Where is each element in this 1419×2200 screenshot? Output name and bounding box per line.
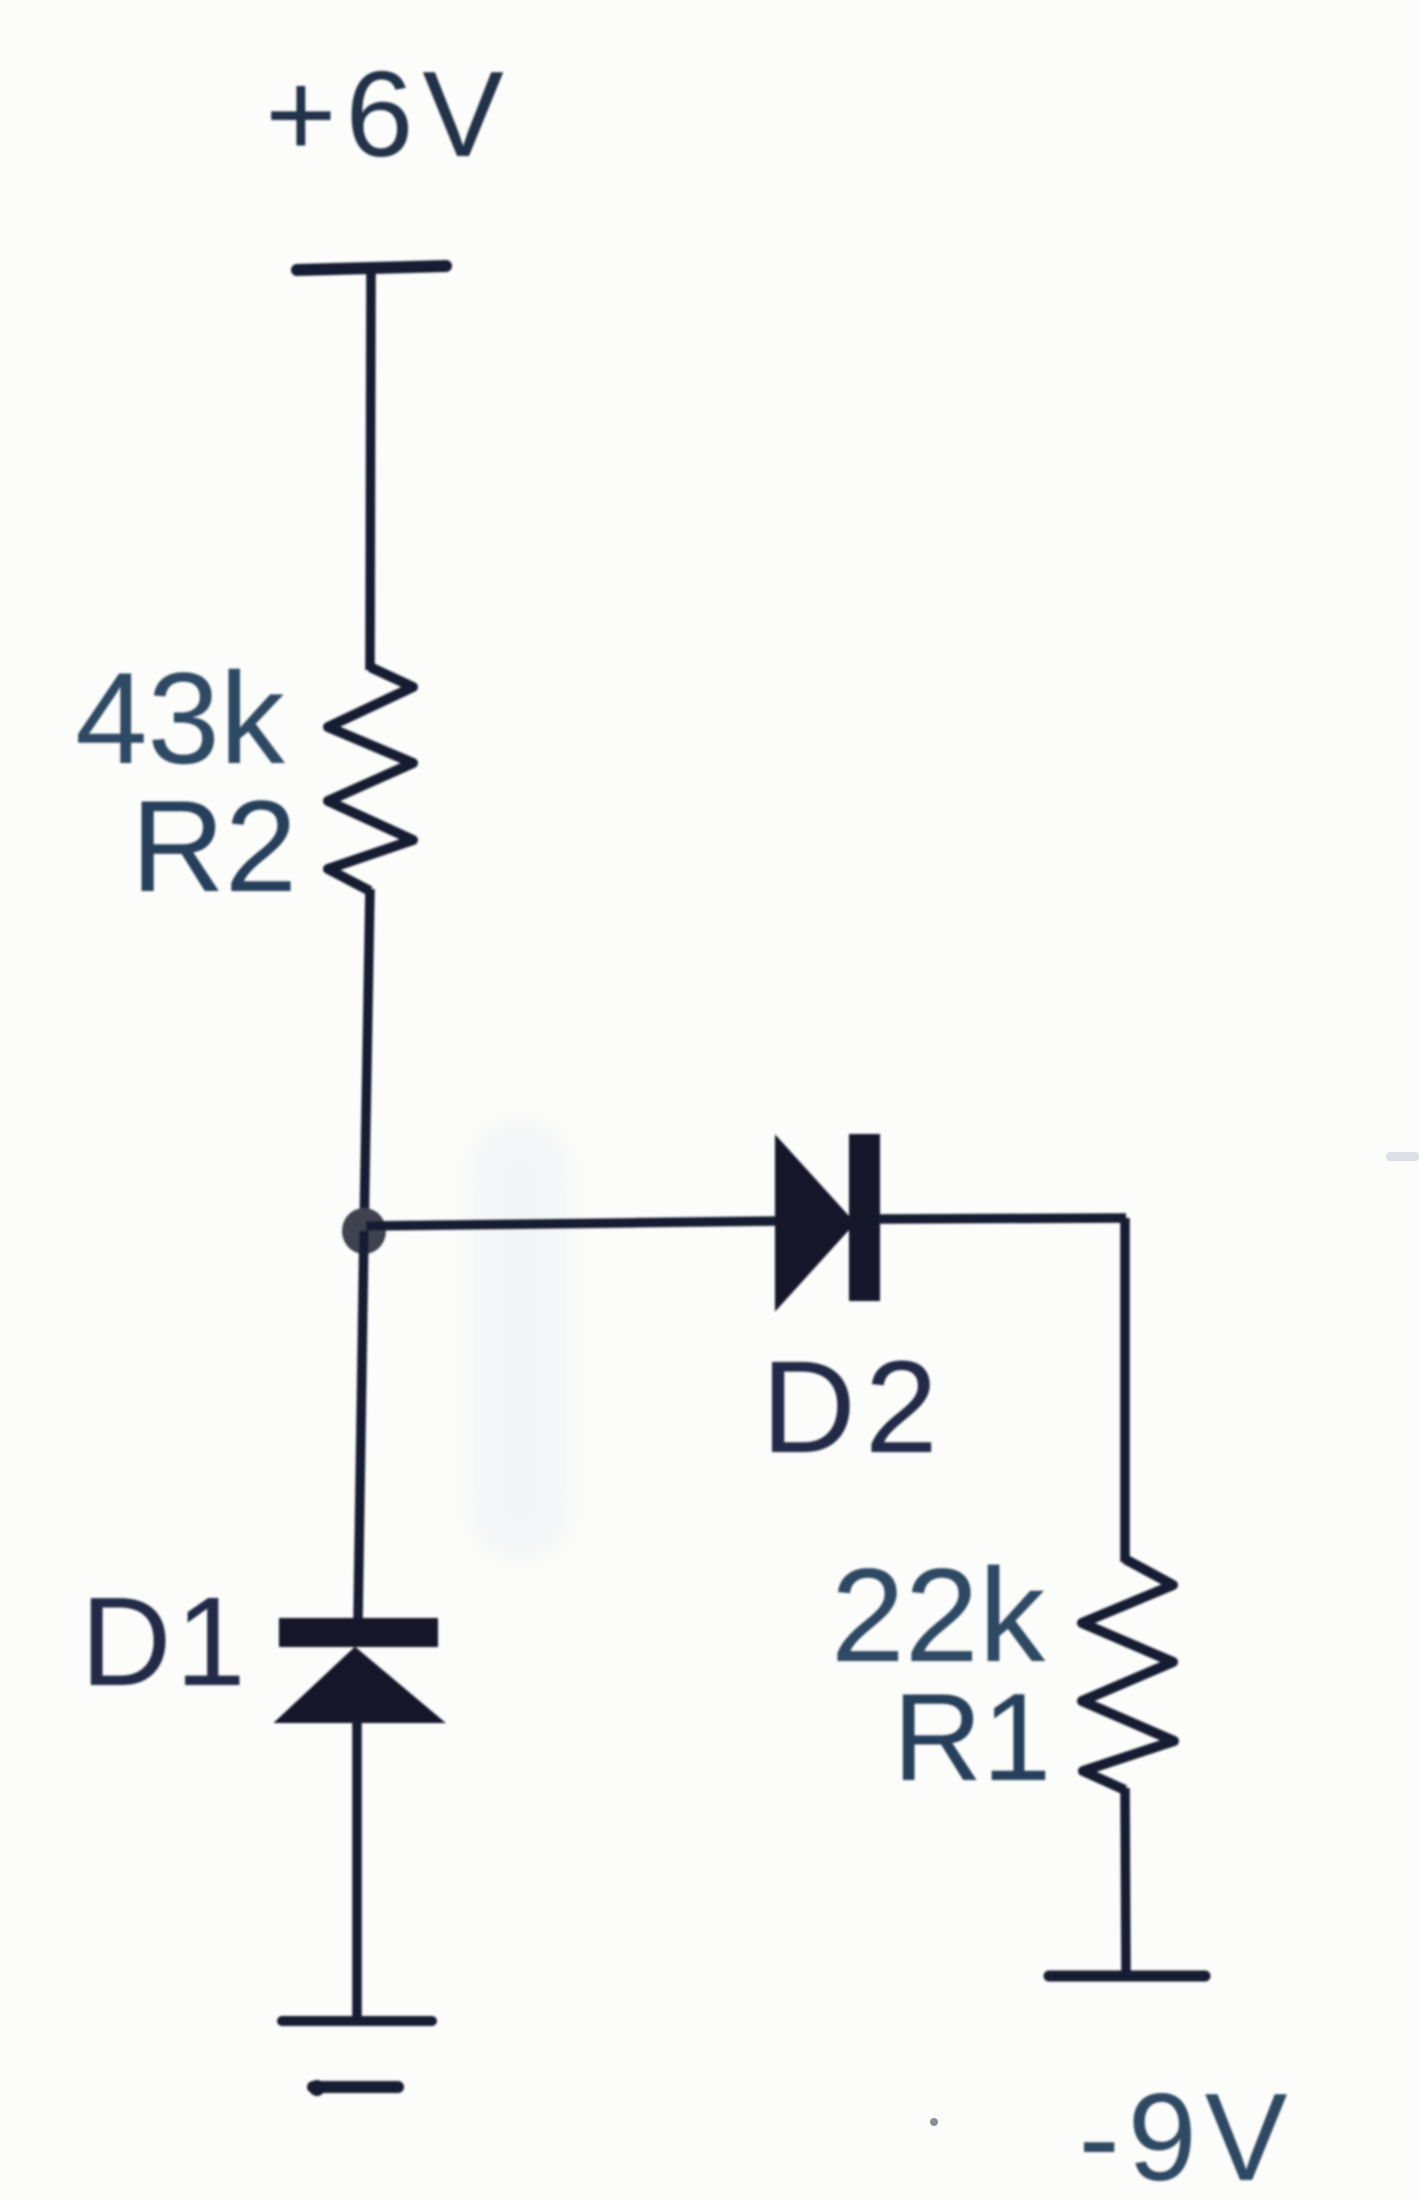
wire D2 cathode to corner <box>878 1218 1126 1219</box>
wire node to D1 <box>358 1231 364 1620</box>
svg-text:R2: R2 <box>131 773 297 919</box>
ground bar 1 <box>282 2016 432 2026</box>
diode D2 cathode bar <box>849 1134 880 1301</box>
diode D1 triangle (anode, pointing up) <box>276 1648 443 1722</box>
wire R2 bottom to node <box>364 889 370 1232</box>
wire +6V rail to R2 top <box>370 270 371 670</box>
ground bar 2 <box>309 2080 398 2096</box>
wire D1 anode to ground <box>352 1720 362 2021</box>
svg-text:R1: R1 <box>893 1669 1052 1807</box>
resistor R2 <box>328 667 413 891</box>
svg-text:D2: D2 <box>761 1333 946 1480</box>
-9V power rail bar <box>1049 1971 1205 1982</box>
svg-text:43k: 43k <box>75 645 286 791</box>
wire corner down to R1 <box>1120 1218 1130 1562</box>
wire R1 bottom to -9V rail <box>1125 1788 1126 1975</box>
+6V power rail bar <box>297 266 446 270</box>
node junction dot <box>342 1208 386 1254</box>
svg-text:+6V: +6V <box>265 46 512 182</box>
diode D1 cathode bar <box>279 1618 438 1647</box>
svg-text:22k: 22k <box>831 1542 1046 1690</box>
svg-text:D1: D1 <box>80 1571 249 1712</box>
svg-text:-9V: -9V <box>1079 2069 1296 2200</box>
diode D2 triangle (anode) <box>776 1137 854 1309</box>
wire node to D2 anode <box>366 1221 779 1226</box>
resistor R1 <box>1082 1559 1174 1790</box>
